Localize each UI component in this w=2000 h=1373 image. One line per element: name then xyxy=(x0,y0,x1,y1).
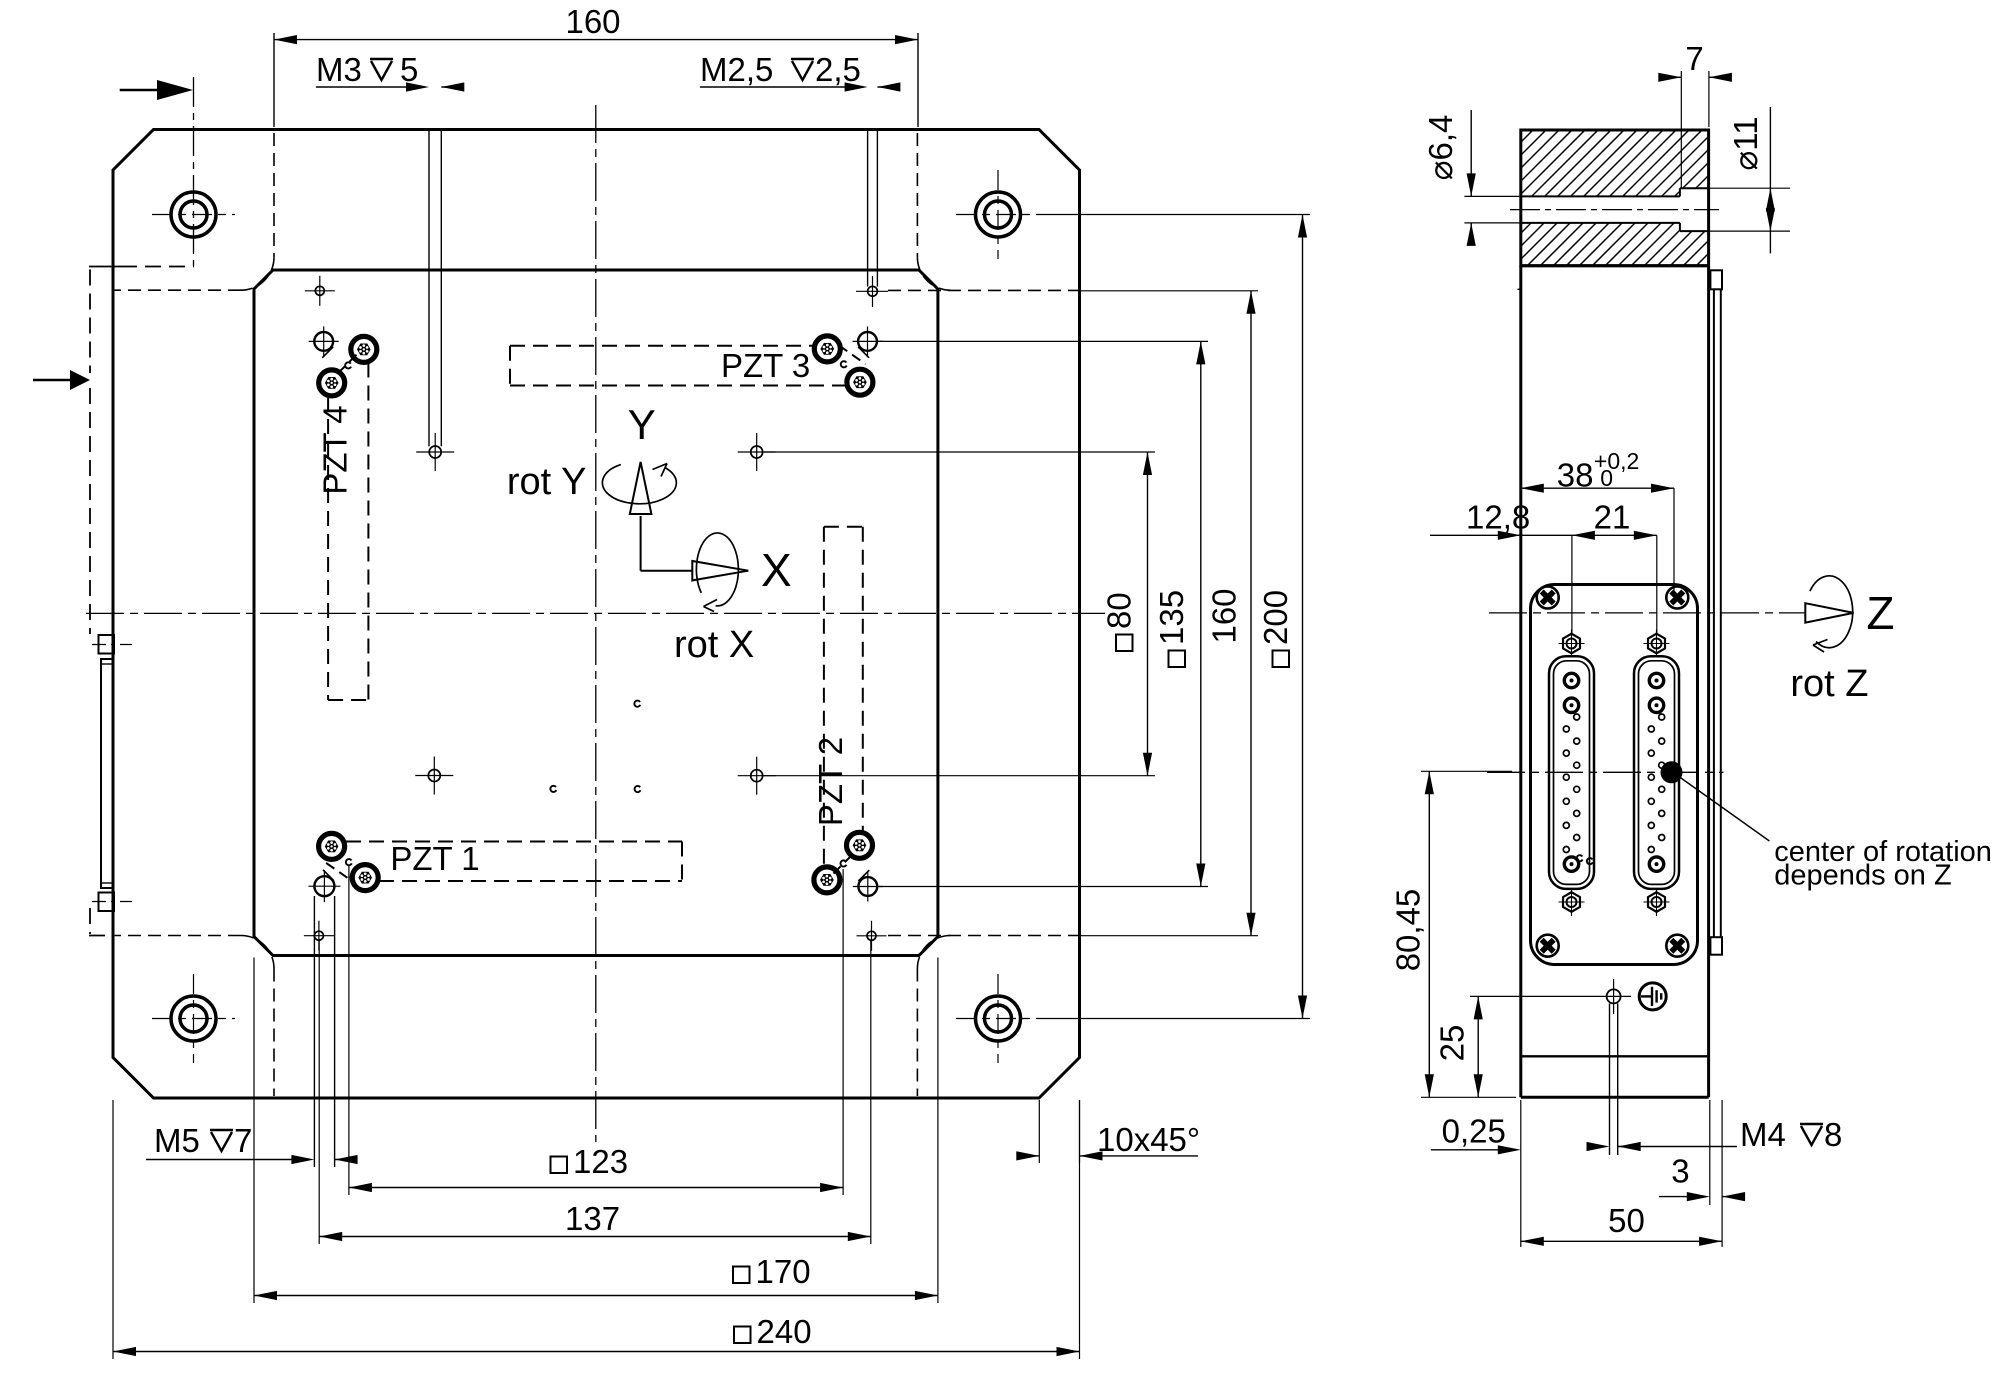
D-sub connector left signal pins xyxy=(1574,714,1580,720)
M4 tapped hole xyxy=(1607,989,1621,1003)
dimension 21 extension lines xyxy=(1571,535,1573,634)
left edge connector block bottom xyxy=(99,893,115,912)
dimension square-135 xyxy=(1200,341,1202,886)
M5 hole projection lines to bottom dimension xyxy=(313,896,315,1167)
D-sub connector right connector body xyxy=(1634,656,1679,889)
D-sub connector left coax pins xyxy=(1564,673,1578,687)
side view platform section block xyxy=(1521,130,1709,266)
phillips screw bottom-left xyxy=(1537,935,1559,957)
platform step tick xyxy=(1518,288,1521,290)
dimension 38 +0.2/0 xyxy=(1673,488,1675,592)
hidden pocket contour top-left (dashed vertical, fillet, horizontal) xyxy=(273,133,275,257)
PZT2 torx screw lower xyxy=(814,867,840,893)
svg-text:25: 25 xyxy=(1433,1025,1470,1062)
connector mounting plate xyxy=(1531,585,1698,965)
svg-text:PZT 3: PZT 3 xyxy=(721,347,810,384)
svg-text:M3: M3 xyxy=(316,51,362,88)
hidden edge top-left horizontal xyxy=(89,266,121,268)
svg-text:8: 8 xyxy=(1824,1116,1842,1153)
svg-text:⌀11: ⌀11 xyxy=(1727,116,1764,170)
horizontal centerline xyxy=(86,612,1105,614)
pin mark PZT1 xyxy=(346,859,352,865)
dimension square-200 extension lines xyxy=(1040,214,1310,216)
hole 80-grid bottom-left xyxy=(428,770,440,782)
svg-text:M5: M5 xyxy=(154,1122,200,1159)
extension lines for bottom dimensions xyxy=(348,866,350,1195)
svg-text:80: 80 xyxy=(1101,592,1138,629)
svg-text:2,5: 2,5 xyxy=(815,51,861,88)
dimension square-80 extension lines xyxy=(763,451,1155,453)
hidden edge bottom-left horizontal xyxy=(89,935,114,937)
dowel hole 160-grid bottom-right xyxy=(867,931,876,940)
Y axis arrow xyxy=(640,516,642,571)
svg-text:0: 0 xyxy=(1600,465,1613,491)
D-sub connector left connector body xyxy=(1549,656,1594,889)
phillips screw top-right xyxy=(1666,587,1688,609)
leader line center of rotation xyxy=(1676,775,1769,842)
hidden pocket contour bottom-left xyxy=(273,969,275,1097)
PZT1 torx screw upper xyxy=(319,833,345,859)
svg-text:170: 170 xyxy=(756,1253,811,1290)
pin mark center left xyxy=(550,786,556,792)
svg-text:M4: M4 xyxy=(1740,1116,1786,1153)
svg-text:240: 240 xyxy=(757,1313,812,1350)
pin mark PZT3 xyxy=(841,361,847,367)
dimension dia 11 xyxy=(1709,187,1790,189)
outer plate outline (240 square, chamfered corners) xyxy=(113,130,1080,1099)
hole 80-grid top-right xyxy=(751,446,763,458)
slot centerline xyxy=(1510,209,1719,211)
svg-text:123: 123 xyxy=(573,1143,628,1180)
svg-text:7: 7 xyxy=(1685,40,1703,77)
dimension 80.45 xyxy=(1421,770,1512,772)
svg-text:7: 7 xyxy=(234,1122,252,1159)
strip bottom tab xyxy=(1710,937,1722,955)
side strip plate (3mm) lines xyxy=(1713,289,1715,937)
PZT4 tapped hole xyxy=(314,332,333,351)
PZT2 tapped hole M5 xyxy=(858,877,877,896)
D-sub connector left jack screw top xyxy=(1559,630,1585,658)
svg-text:137: 137 xyxy=(565,1200,620,1237)
PZT3 torx screw upper xyxy=(814,336,840,362)
dimension 3 xyxy=(1709,1100,1711,1205)
corner hole top-right xyxy=(976,192,1021,237)
svg-text:M2,5: M2,5 xyxy=(700,51,773,88)
svg-text:0,25: 0,25 xyxy=(1442,1113,1506,1150)
hole 80-grid bottom-right xyxy=(751,770,763,782)
platform underside edge xyxy=(1521,264,1709,267)
pin marks near connector bottom xyxy=(1577,855,1583,861)
svg-text:rot Z: rot Z xyxy=(1790,663,1868,705)
M2.5 tapped hole with projection lines xyxy=(867,130,869,287)
svg-text:PZT 1: PZT 1 xyxy=(390,840,479,877)
dimension 160 right extension lines xyxy=(1080,290,1259,292)
PZT4 torx screw lower xyxy=(319,370,345,396)
dimension 12.8 xyxy=(1430,534,1521,536)
svg-text:PZT 2: PZT 2 xyxy=(812,737,849,826)
pin mark center right xyxy=(635,786,641,792)
svg-text:X: X xyxy=(761,544,792,596)
PZT3 tapped hole xyxy=(858,332,877,351)
dimension square-200 xyxy=(1302,215,1304,1019)
pin mark PZT4 xyxy=(345,362,351,368)
dimension square-240 xyxy=(113,1351,1080,1353)
inner platform outline (170 square, chamfered corners) xyxy=(254,270,938,956)
dimension square-170 xyxy=(254,1295,938,1297)
strip top tab xyxy=(1710,270,1722,289)
dimension square-123 xyxy=(349,1187,843,1189)
rot Y ellipse arrow xyxy=(602,465,676,504)
dimension 50 xyxy=(1521,1240,1722,1242)
svg-text:10x45°: 10x45° xyxy=(1097,1121,1200,1158)
svg-text:21: 21 xyxy=(1594,499,1631,536)
svg-text:depends on Z: depends on Z xyxy=(1774,860,1951,892)
D-sub connector right coax pins xyxy=(1649,673,1663,687)
D-sub connector right jack screw bottom xyxy=(1644,888,1670,916)
phillips screw bottom-right xyxy=(1666,935,1688,957)
left edge connector block top xyxy=(99,635,115,654)
ground symbol xyxy=(1639,983,1666,1010)
body bottom step line xyxy=(1521,1055,1709,1057)
dimension dia 6.4 xyxy=(1464,195,1520,197)
corner hole bottom-right xyxy=(976,996,1021,1041)
dimension 160 top xyxy=(273,33,275,127)
PZT1 torx screw lower xyxy=(352,865,378,891)
PZT 3 actuator dashed outline xyxy=(510,345,814,347)
dimension 21 xyxy=(1521,534,1657,536)
Z axis arrow xyxy=(1805,603,1853,622)
D-sub connector right signal pins xyxy=(1659,714,1665,720)
main centerline Z axis xyxy=(1489,612,1807,614)
chamfer dimension 10x45 xyxy=(1038,1100,1040,1163)
svg-text:PZT 4: PZT 4 xyxy=(317,405,354,494)
pin mark PZT2 xyxy=(840,860,846,866)
pin mark center right-top xyxy=(634,701,640,707)
svg-text:5: 5 xyxy=(400,51,418,88)
vertical centerline xyxy=(595,105,597,1142)
dowel hole 160-grid top-left xyxy=(315,286,324,295)
screw slot in section xyxy=(1521,195,1680,197)
PZT 1 actuator dashed outline xyxy=(346,841,682,843)
corner hole bottom-left xyxy=(171,996,216,1041)
svg-text:12,8: 12,8 xyxy=(1466,499,1530,536)
dimension 0.25 xyxy=(1520,1100,1522,1247)
left edge connector bar xyxy=(101,659,113,888)
svg-text:200: 200 xyxy=(1257,590,1294,645)
PZT3 torx screw lower xyxy=(847,369,873,395)
dimension 160 right xyxy=(1250,291,1252,936)
center of rotation marker dot xyxy=(1661,761,1683,783)
svg-text:Y: Y xyxy=(628,401,656,448)
M3 tapped hole with projection lines xyxy=(428,130,430,447)
counterbore in section xyxy=(1680,187,1709,189)
svg-text:⌀6,4: ⌀6,4 xyxy=(1422,115,1459,181)
section view arrow left xyxy=(33,379,70,381)
dimension 25 xyxy=(1470,995,1596,997)
svg-text:160: 160 xyxy=(1206,588,1243,643)
center of rotation axis line xyxy=(1487,771,1724,773)
corner hole top-left xyxy=(171,192,216,237)
phillips screw top-left xyxy=(1537,587,1559,609)
D-sub connector left jack screw bottom xyxy=(1559,888,1585,916)
dimension square-80 xyxy=(1147,452,1149,776)
svg-text:rot X: rot X xyxy=(674,624,754,666)
dimension 7 counterbore depth xyxy=(1680,71,1682,188)
M4 hole projection lines xyxy=(1609,1004,1611,1156)
PZT1 tapped hole M5 xyxy=(314,876,334,896)
dimension 137 xyxy=(319,1236,871,1238)
PZT4 torx screw upper xyxy=(351,336,377,362)
hidden pocket contour bottom-right xyxy=(916,969,918,1097)
rot X ellipse arrow xyxy=(696,533,738,606)
svg-text:135: 135 xyxy=(1153,590,1190,645)
svg-text:50: 50 xyxy=(1608,1202,1645,1239)
section view arrow top xyxy=(120,89,157,91)
svg-text:3: 3 xyxy=(1671,1153,1689,1190)
PZT2 torx screw upper xyxy=(847,832,873,858)
section line through top-left corner hole xyxy=(193,77,195,266)
hidden base plate edge protruding on left side xyxy=(89,270,91,374)
svg-text:rot Y: rot Y xyxy=(507,461,587,503)
dowel hole 160-grid bottom-left xyxy=(314,931,323,940)
hidden pocket contour top-right xyxy=(916,133,918,257)
svg-text:Z: Z xyxy=(1866,587,1894,639)
svg-text:80,45: 80,45 xyxy=(1389,889,1426,972)
X axis arrow xyxy=(641,570,694,572)
side view body outline xyxy=(1519,266,1522,1098)
PZT 2 actuator dashed outline xyxy=(823,527,825,867)
svg-text:160: 160 xyxy=(565,3,620,40)
dimension square-135 extension lines xyxy=(877,340,1208,342)
svg-text:38: 38 xyxy=(1557,457,1594,494)
D-sub connector right jack screw top xyxy=(1644,630,1670,658)
PZT 4 actuator dashed outline xyxy=(327,396,329,700)
rot Z ellipse arrow xyxy=(1810,576,1853,648)
